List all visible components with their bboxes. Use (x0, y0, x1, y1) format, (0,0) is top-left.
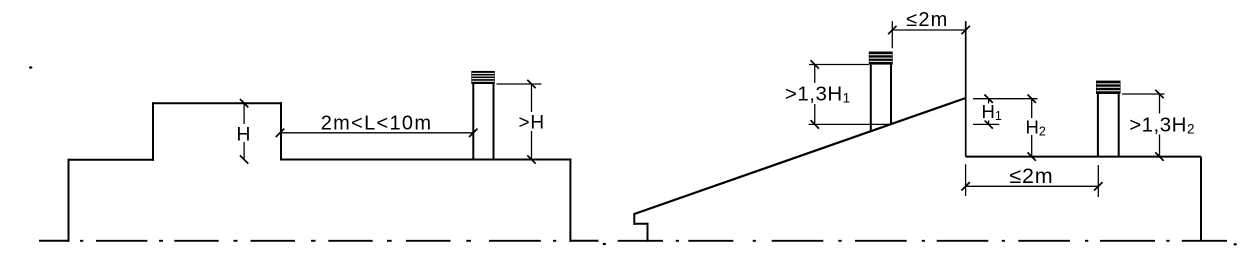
dash-dot segments between and right figure (618, 240, 663, 242)
dimension H2 (1031, 99, 1033, 157)
dimension <=2m top : extension line from chimney 1 (892, 21, 965, 48)
lower step roof (69, 159, 154, 161)
chimney (left figure) hatched cap (471, 71, 495, 84)
svg-text:>H: >H (519, 112, 545, 133)
ground segment left (40, 240, 69, 242)
ticks for <=2m top (888, 26, 970, 34)
upper roof (153, 102, 281, 104)
tall building flat roof (966, 156, 1201, 158)
ticks for H1 (984, 95, 992, 129)
right wall (569, 160, 571, 241)
label H1 (980, 104, 1000, 121)
stray dot under baseline (middle) (603, 243, 606, 245)
sloped roof (634, 98, 965, 214)
ticks for H (240, 99, 248, 164)
chimney (left figure) shaft (473, 84, 493, 160)
dimension >1,3H1 : extension lines (809, 65, 892, 125)
eave step (634, 214, 647, 241)
ticks for 2m<L<10m (276, 129, 478, 137)
main flat roof (281, 159, 570, 161)
chimney 1 hatched cap (869, 52, 893, 65)
ticks for <=2m bottom (961, 182, 1102, 190)
upper roof right drop (280, 103, 282, 159)
dimension H1 : shared top extension line from ridge (973, 99, 1038, 125)
dimension >H (left figure) : top extension line (497, 84, 542, 160)
ticks for H2 (1028, 95, 1036, 161)
ticks for >1,3H1 (811, 60, 819, 128)
label >1,3H1 (786, 83, 849, 104)
label >1,3H2 (1130, 114, 1194, 135)
svg-text:H: H (236, 123, 250, 145)
stray dot under baseline (right end) (1234, 243, 1237, 245)
dimension H (left figure) (243, 103, 245, 159)
ticks for >1,3H2 (1155, 90, 1163, 161)
dimension <=2m bottom : extension lines (966, 164, 1099, 197)
label >H (517, 112, 547, 131)
step wall (152, 103, 154, 160)
dash-dot segments left figure (80, 240, 83, 242)
chimney 1 (on slope) shaft (871, 65, 891, 132)
tall building wall / ridge extension line (965, 21, 967, 157)
dimension 2m&lt;L&lt;10m (left figure) (280, 132, 473, 134)
svg-text:>1,3H1: >1,3H1 (785, 83, 851, 106)
svg-text:>1,3H2: >1,3H2 (1129, 113, 1195, 136)
ground segment right (570, 240, 597, 242)
ticks for >H (527, 80, 535, 164)
svg-text:≤2m: ≤2m (1009, 164, 1053, 188)
chimney 2 (on flat roof) shaft (1098, 94, 1119, 157)
chimney 2 hatched cap (1096, 81, 1121, 94)
tall building right wall (1200, 157, 1202, 241)
svg-text:2m<L<10m: 2m<L<10m (321, 113, 433, 135)
label H (236, 124, 251, 142)
left wall (68, 160, 70, 241)
label H2 (1025, 118, 1046, 135)
svg-text:≤2m: ≤2m (906, 9, 948, 31)
stray speck top left (29, 66, 32, 68)
dimension >1,3H2 : top extension line (1122, 94, 1165, 157)
